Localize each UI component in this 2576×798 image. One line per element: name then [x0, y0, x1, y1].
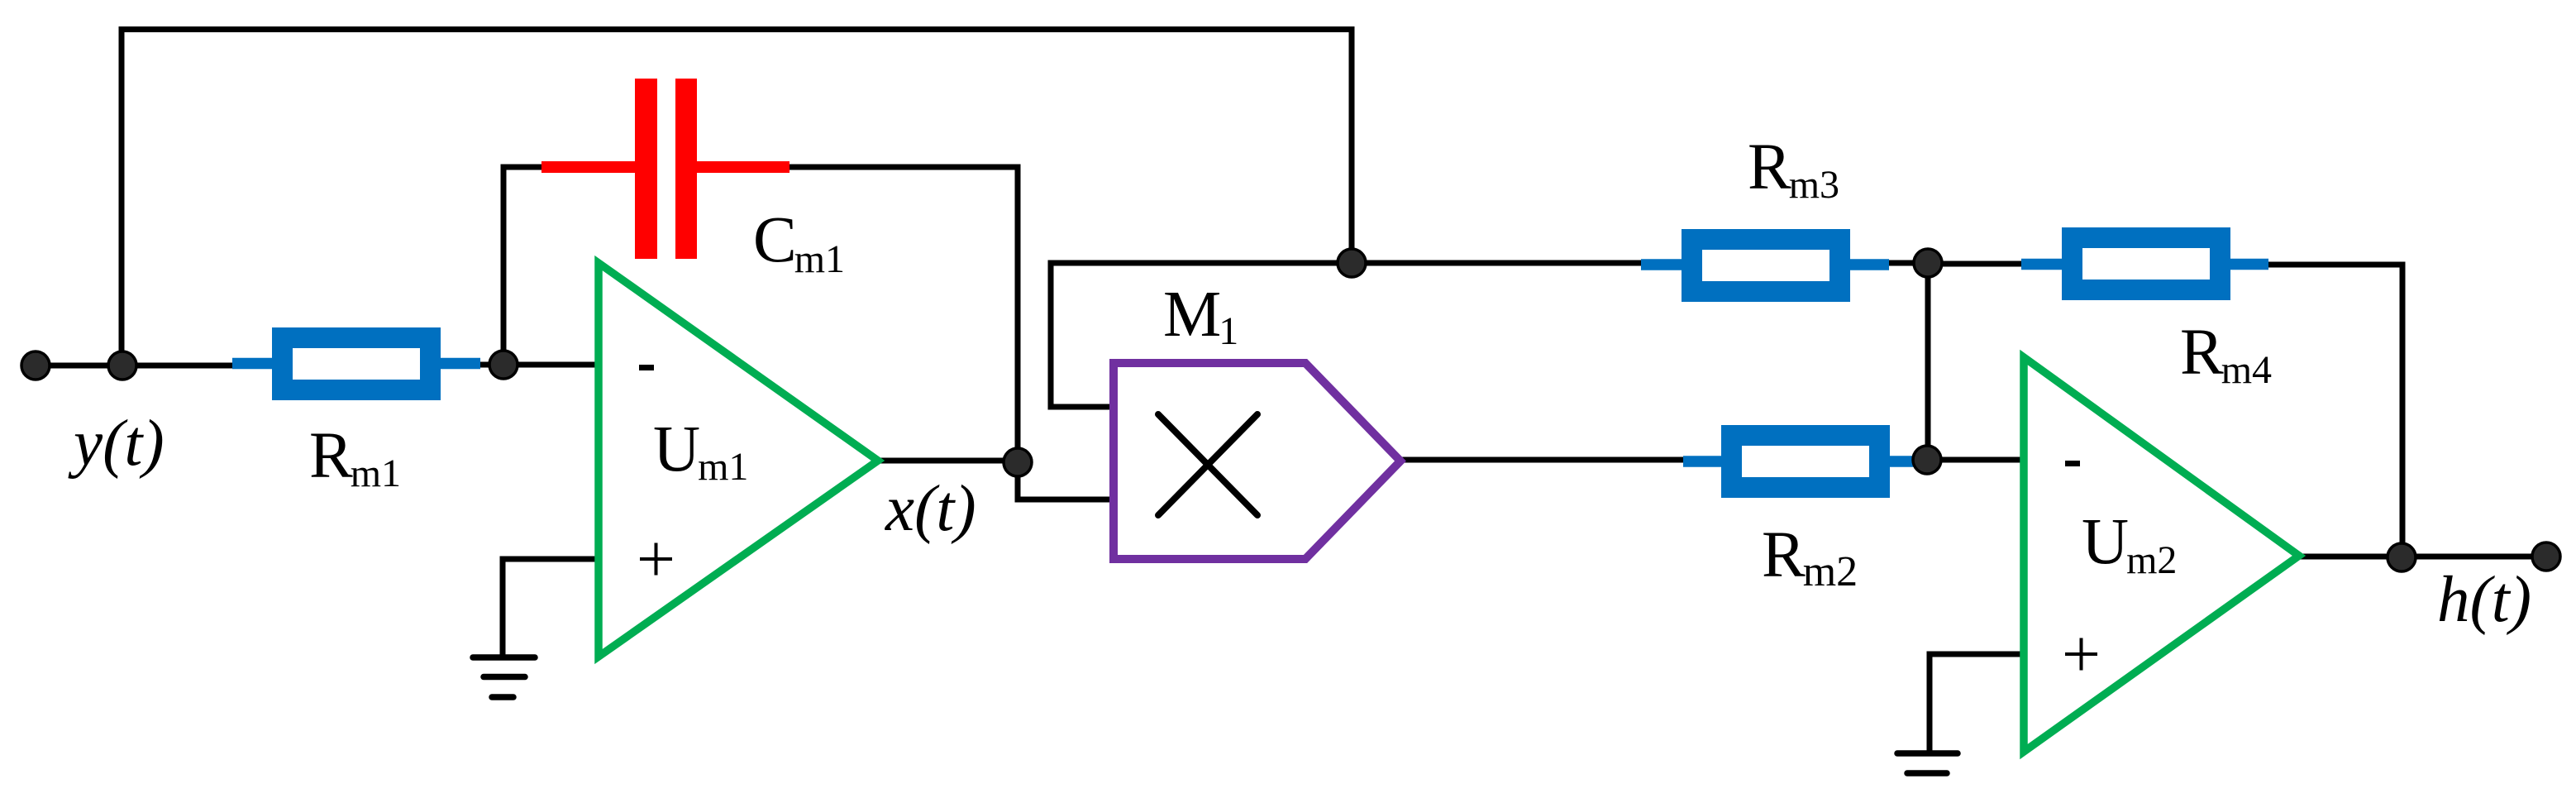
op-amp U_m1: [599, 263, 878, 657]
wire top feedback loop (y(t) node up, across top, down to mid junction): [122, 30, 1352, 366]
plus sign U_m1: [640, 543, 672, 576]
multiplier M1: [1114, 363, 1400, 559]
node mid junction dot (top feedback meets mid wire): [1338, 249, 1366, 277]
wire mid junction to multiplier upper input: [1051, 260, 1114, 408]
wire multiplier output to R_m2 left lead: [1395, 457, 1686, 463]
node x(t) dot: [1004, 448, 1032, 476]
wire R_m4 right lead over and down to output node: [2265, 265, 2402, 557]
node junction A dot (R_m3 / R_m4): [1914, 249, 1942, 277]
svg-text:y(t): y(t): [68, 408, 165, 480]
minus sign U_m1: [639, 365, 654, 370]
ground (below U_m1 non-inverting input): [473, 657, 535, 697]
node junction B dot (R_m2 / U_m2 inverting): [1913, 446, 1941, 474]
wire junction B to U_m2 inverting input: [1927, 457, 2027, 463]
node output junction dot: [2388, 543, 2416, 571]
minus sign U_m2: [2065, 461, 2080, 466]
wire inverting node up to capacitor left lead: [503, 167, 544, 365]
node y(t) feedback junction dot: [108, 351, 136, 380]
capacitor C_m1: [541, 79, 789, 259]
wire U_m2 non-inverting input from ground: [1930, 654, 2025, 753]
wire capacitor right lead across and down to x(t) node: [787, 167, 1018, 463]
resistor R_m4: [2021, 238, 2268, 290]
svg-text:x(t): x(t): [885, 473, 976, 545]
resistor R_m3: [1641, 240, 1889, 292]
resistor R_m2: [1683, 436, 1930, 488]
wire U_m1 output to x(t) node: [875, 458, 1018, 464]
wire junction A down to junction B: [1925, 263, 1931, 460]
wire input segment y(t) terminal to R_m1 left lead: [36, 363, 236, 369]
resistor R_m1: [232, 338, 480, 390]
node y(t) input terminal dot: [21, 351, 50, 380]
wire R_m1 right lead to U_m1 inverting input: [477, 362, 601, 368]
multiplier X symbol: [1158, 414, 1257, 515]
op-amp U_m2: [2024, 357, 2299, 752]
ground (below U_m2 non-inverting input): [1897, 753, 1958, 773]
node U_m1 inverting input dot: [489, 351, 518, 379]
wire R_m3 right lead to junction A: [1887, 260, 1928, 266]
wire x(t) node down to multiplier lower input: [1018, 461, 1114, 499]
plus sign U_m2: [2065, 638, 2097, 671]
svg-text:h(t): h(t): [2437, 564, 2531, 636]
wire junction A to R_m4 left lead: [1928, 261, 2024, 267]
wire U_m2 output to h(t) terminal: [2297, 554, 2546, 560]
node h(t) output terminal dot: [2532, 542, 2560, 571]
wire mid horizontal (multiplier branch to R_m3 left lead): [1048, 260, 1644, 266]
wire U_m1 non-inverting input from ground: [503, 559, 601, 657]
